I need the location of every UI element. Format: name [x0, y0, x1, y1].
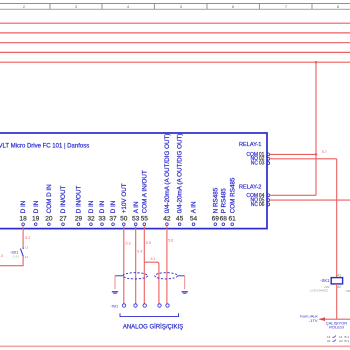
- svg-text:5.5: 5.5: [146, 241, 151, 245]
- relay-2 pin NO 05: [251, 198, 270, 204]
- power bus line 3: [0, 42, 350, 44]
- svg-text:5.7: 5.7: [322, 150, 327, 154]
- wire coil to bottom line: [336, 284, 338, 319]
- pin 55 COM A IN/OUT: [141, 170, 149, 225]
- svg-text:54: 54: [190, 216, 198, 223]
- pin 69 N RS485: [212, 187, 220, 225]
- svg-text:18: 18: [19, 216, 27, 223]
- svg-text:D IN: D IN: [20, 200, 27, 213]
- svg-text:OM: OM: [346, 289, 350, 293]
- svg-text:19: 19: [32, 216, 40, 223]
- svg-text:06: 06: [259, 202, 265, 208]
- switch S01: [10, 246, 29, 259]
- drawing frame top border: [0, 4, 350, 10]
- wire: bus to relay commons vertical: [315, 62, 317, 195]
- wire NO05 to page edge: [270, 199, 350, 201]
- pin 29 D IN/OUT: [75, 186, 83, 226]
- svg-text:LY2N 24VDC: LY2N 24VDC: [310, 289, 329, 293]
- svg-text:D IN: D IN: [88, 200, 95, 213]
- svg-text:A2: A2: [337, 285, 341, 289]
- svg-text:RÖLESİ: RÖLESİ: [329, 325, 344, 330]
- junction COM01/vertical: [315, 153, 317, 155]
- cable screen left: [123, 273, 148, 279]
- terminal circle 1: [122, 304, 125, 307]
- svg-text:COM D IN: COM D IN: [46, 184, 53, 213]
- pin 27 D IN/OUT: [59, 186, 67, 226]
- svg-text:NC: NC: [251, 160, 259, 166]
- svg-text:D IN: D IN: [33, 200, 40, 213]
- ground symbol left: [112, 292, 118, 294]
- power bus line 5: [0, 61, 350, 63]
- svg-text:14: 14: [25, 255, 29, 259]
- svg-text:61: 61: [229, 216, 237, 223]
- svg-text:68: 68: [220, 216, 228, 223]
- svg-text:45: 45: [176, 216, 184, 223]
- pin 68 P RS485: [220, 188, 228, 226]
- VLT drive box U1: [0, 133, 267, 229]
- svg-text:69: 69: [212, 216, 220, 223]
- svg-text:37: 37: [109, 216, 117, 223]
- ground symbol right: [182, 292, 188, 294]
- svg-text:RELAY-1: RELAY-1: [239, 142, 261, 148]
- svg-text:5.3: 5.3: [126, 242, 131, 246]
- wire switch down and left to edge: [0, 256, 23, 265]
- power bus line 4: [0, 51, 350, 53]
- wire NO02 horizontal: [270, 158, 337, 160]
- svg-text:5.2: 5.2: [25, 236, 30, 240]
- svg-text:A2: A2: [339, 339, 343, 343]
- svg-text:RELAY-2: RELAY-2: [239, 185, 261, 191]
- terminal circle 5: [166, 304, 169, 307]
- pin 50 +10V OUT: [120, 183, 128, 225]
- shield drain right: [178, 275, 185, 277]
- svg-text:5.1: 5.1: [151, 257, 156, 261]
- terminal circle 4: [158, 304, 161, 307]
- svg-text:53: 53: [132, 216, 140, 223]
- svg-text:D IN: D IN: [99, 200, 106, 213]
- svg-text:0/4-20mA (A OUT/DIG OUT): 0/4-20mA (A OUT/DIG OUT): [164, 134, 171, 214]
- svg-text:55: 55: [141, 216, 149, 223]
- wire pin42 drop: [166, 226, 168, 303]
- relay-1 pin COM 01: [246, 152, 269, 158]
- pin 37 D IN: [109, 200, 117, 225]
- svg-text:.0: .0: [0, 254, 3, 258]
- svg-text:-1TV: -1TV: [309, 318, 318, 323]
- junction on bus line 5: [315, 61, 317, 63]
- arrow to reference: [319, 317, 325, 321]
- svg-text:1 4 1: 1 4 1: [13, 254, 20, 258]
- svg-text:NC: NC: [251, 202, 259, 208]
- cable screen right: [155, 273, 178, 279]
- svg-text:P RS485: P RS485: [220, 188, 227, 214]
- pin 53 A IN: [132, 201, 140, 226]
- bottom reference line: [320, 318, 350, 320]
- pin 32 D IN: [87, 200, 95, 225]
- svg-text:/5.1: /5.1: [344, 339, 349, 343]
- group bracket: [120, 313, 179, 316]
- svg-text:D IN/OUT: D IN/OUT: [76, 186, 83, 214]
- relay-2 pin COM 04: [246, 193, 269, 199]
- svg-text:5.6: 5.6: [168, 239, 173, 243]
- svg-text:0/4-20mA (A OUT/DIG OUT): 0/4-20mA (A OUT/DIG OUT): [177, 134, 184, 214]
- svg-text:A IN: A IN: [191, 201, 198, 213]
- svg-text:20: 20: [45, 216, 53, 223]
- svg-text:13: 13: [25, 246, 29, 250]
- wire pin55 drop: [143, 226, 145, 303]
- wire pin18 drop: [22, 226, 24, 247]
- svg-text:COM RS485: COM RS485: [229, 177, 236, 213]
- power bus line 1: [0, 22, 350, 24]
- svg-text:COM A IN/OUT: COM A IN/OUT: [141, 170, 148, 213]
- wire pin53 drop: [135, 226, 137, 303]
- svg-text:5.4: 5.4: [137, 249, 142, 253]
- terminal circle 3: [143, 304, 146, 307]
- svg-text:-SK1: -SK1: [320, 278, 330, 283]
- svg-text:50: 50: [120, 216, 128, 223]
- bottom frame line: [0, 345, 350, 347]
- pin 54 A IN: [190, 201, 198, 226]
- wire COM01 to bus drop: [270, 153, 316, 155]
- pin 33 D IN: [98, 200, 106, 225]
- pin 45 0/4-20mA out: [176, 134, 184, 226]
- contact cross reference table: [327, 335, 349, 343]
- relay-1 pin NO 02: [251, 156, 270, 162]
- svg-text:VLT Micro Drive FC 101 | Danfo: VLT Micro Drive FC 101 | Danfoss: [0, 143, 89, 149]
- svg-text:A1: A1: [337, 274, 341, 278]
- svg-text:42: 42: [163, 216, 171, 223]
- terminal circle 2: [134, 304, 137, 307]
- svg-text:ANALOG GİRİŞ/ÇIKIŞ: ANALOG GİRİŞ/ÇIKIŞ: [123, 324, 183, 331]
- wire COM04: [270, 194, 316, 196]
- svg-text:+10V OUT: +10V OUT: [121, 183, 128, 213]
- svg-text:A IN: A IN: [133, 201, 140, 213]
- relay coil SK1: [331, 274, 342, 289]
- pin 61 COM RS485: [229, 177, 237, 225]
- svg-text:29: 29: [75, 216, 83, 223]
- shield drain left: [115, 275, 123, 277]
- relay-2 pin NC 06: [251, 202, 270, 208]
- pin 42 0/4-20mA out: [163, 134, 171, 226]
- svg-text:03: 03: [259, 160, 265, 166]
- svg-text:D IN/OUT: D IN/OUT: [60, 186, 67, 214]
- svg-text:D IN: D IN: [110, 200, 117, 213]
- svg-text:27: 27: [59, 216, 67, 223]
- svg-text:32: 32: [87, 216, 95, 223]
- relay-1 pin NC 03: [251, 160, 270, 166]
- svg-text:A1: A1: [327, 339, 331, 343]
- power bus line 2: [0, 32, 350, 34]
- frame column labels: [23, 4, 340, 9]
- pin 18 D IN: [19, 200, 27, 225]
- wire pin50 drop: [123, 226, 125, 303]
- pin 19 D IN: [32, 200, 40, 225]
- pin 20 COM D IN: [45, 184, 53, 226]
- jumper 55 to terminal: [144, 262, 159, 304]
- svg-text:-TM1: -TM1: [110, 304, 118, 308]
- svg-text:33: 33: [98, 216, 106, 223]
- wire NO02 vertical to coil: [336, 159, 338, 278]
- svg-text:N RS485: N RS485: [212, 187, 219, 213]
